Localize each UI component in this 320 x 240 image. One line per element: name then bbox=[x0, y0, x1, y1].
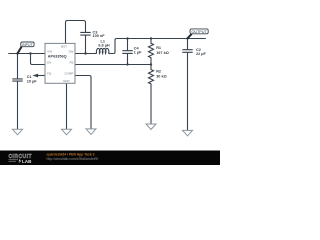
CircuitLab logo bbox=[9, 154, 33, 164]
junction C3 on SW net bbox=[84, 52, 86, 54]
resistor R1 bbox=[149, 39, 154, 65]
wire EN branch bbox=[31, 54, 46, 65]
IC U1 AP63356Q body bbox=[45, 43, 75, 83]
ground (COMP) bbox=[86, 129, 96, 135]
junction R1/R2 on FB net bbox=[150, 63, 152, 65]
svg-text:BST: BST bbox=[61, 45, 67, 49]
junction C4 on FB net bbox=[126, 63, 128, 65]
svg-text:COMP: COMP bbox=[64, 72, 73, 76]
svg-text:FQ: FQ bbox=[47, 72, 52, 76]
svg-text:R1: R1 bbox=[156, 46, 161, 50]
resistor R2 bbox=[149, 65, 154, 125]
svg-text:LAB: LAB bbox=[22, 159, 32, 164]
svg-text:EN: EN bbox=[47, 61, 51, 65]
wire input rail bbox=[8, 53, 45, 55]
OUTPUT flag bbox=[187, 29, 208, 39]
junction at C1 / INPUT flag on input rail bbox=[16, 52, 18, 54]
capacitor C3 plates bbox=[80, 32, 90, 35]
svg-text:10 µF: 10 µF bbox=[27, 80, 37, 84]
svg-text:VIN: VIN bbox=[47, 50, 52, 54]
wire SW to inductor bbox=[75, 53, 97, 55]
wire FB line bbox=[75, 64, 151, 66]
inductor L1 bbox=[96, 48, 108, 53]
svg-text:GND: GND bbox=[63, 79, 71, 83]
svg-text:OUTPUT: OUTPUT bbox=[191, 30, 207, 34]
junction C4 on output rail bbox=[126, 37, 128, 39]
capacitor C2 leads bbox=[187, 39, 189, 131]
wire GND pin down bbox=[66, 83, 68, 129]
svg-text:1 µF: 1 µF bbox=[134, 50, 142, 54]
INPUT flag bbox=[18, 42, 35, 54]
svg-text:22 µF: 22 µF bbox=[196, 52, 206, 56]
svg-text:197 kΩ: 197 kΩ bbox=[156, 51, 169, 55]
capacitor C2 plates bbox=[182, 50, 192, 53]
ground (GND pin) bbox=[62, 129, 72, 135]
wire inductor up to output rail bbox=[109, 39, 206, 54]
svg-text:http://circuitlab.com/c/9fa6am: http://circuitlab.com/c/9fa6am4nf9f bbox=[47, 157, 99, 161]
svg-text:R2: R2 bbox=[156, 69, 161, 73]
junction R1 on output rail bbox=[150, 37, 152, 39]
wire COMP branch bbox=[75, 76, 91, 129]
capacitor C1 plates bbox=[12, 79, 22, 81]
svg-text:6.8 µH: 6.8 µH bbox=[98, 43, 110, 47]
svg-text:FB: FB bbox=[70, 61, 74, 65]
svg-text:SW: SW bbox=[69, 50, 74, 54]
svg-text:quantesla54 / PER App Task 3: quantesla54 / PER App Task 3 bbox=[47, 152, 95, 156]
junction C2 on output rail bbox=[186, 37, 188, 39]
footer watermark bar bbox=[0, 151, 220, 166]
svg-text:INPUT: INPUT bbox=[22, 43, 33, 47]
junction EN branch on input rail bbox=[29, 52, 31, 54]
capacitor C4 leads bbox=[127, 39, 129, 65]
ground (C1) bbox=[13, 129, 23, 135]
svg-text:100 nF: 100 nF bbox=[93, 34, 106, 38]
svg-text:30 kΩ: 30 kΩ bbox=[156, 74, 166, 78]
svg-text:C1: C1 bbox=[27, 75, 32, 79]
wire BST loop bbox=[66, 21, 86, 54]
capacitor C4 plates bbox=[122, 51, 132, 54]
arrow on FQ pin bbox=[32, 74, 45, 78]
wire C1 branch down bbox=[17, 54, 19, 130]
svg-text:AP63356Q: AP63356Q bbox=[48, 55, 67, 59]
ground (C2) bbox=[183, 130, 193, 136]
ground (R2) bbox=[146, 124, 156, 130]
